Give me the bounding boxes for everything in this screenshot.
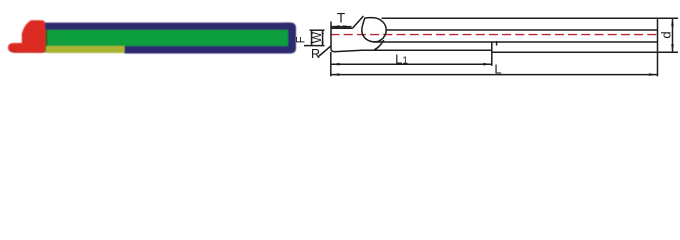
W dimension left arrow line <box>311 30 313 45</box>
svg-text:R: R <box>311 47 320 61</box>
lobe-to-neck fillet <box>374 40 384 50</box>
L1 left arrowhead <box>331 63 340 66</box>
head slant to lobe (T right extension) <box>353 16 364 28</box>
T dimension line <box>331 26 352 28</box>
W bottom extension tick <box>304 45 325 47</box>
shank bottom outline + d extension <box>492 51 678 53</box>
small tick at nominal L1 end <box>496 41 498 46</box>
d top arrowhead <box>671 18 674 27</box>
W arrows (4 small) <box>310 30 323 45</box>
label T <box>337 10 345 25</box>
tool navy bottom band (rear) <box>125 46 289 54</box>
tool shank top navy band <box>44 23 291 30</box>
dark seam between red head and green <box>45 30 48 53</box>
label F (rotated) <box>296 36 308 43</box>
tool green carbide band <box>46 30 288 46</box>
R leader line <box>319 46 332 57</box>
label L <box>494 61 501 76</box>
L1 dimension line <box>331 63 492 65</box>
head left edge with corner radius <box>331 22 335 52</box>
d bottom arrowhead <box>671 44 674 53</box>
L/L1 left extension line <box>330 52 332 76</box>
shank upper flat line <box>386 29 658 31</box>
svg-text:d: d <box>659 31 674 38</box>
d dimension line <box>672 18 674 53</box>
svg-text:W: W <box>310 31 324 43</box>
svg-text:F: F <box>296 36 308 43</box>
W dimension right arrow line <box>322 30 324 45</box>
red head lower shading <box>9 50 44 53</box>
tool yellow band (front lower) <box>46 46 125 53</box>
W top extension tick <box>310 29 325 31</box>
label L1 <box>395 51 408 66</box>
shank lower flat line <box>373 41 658 43</box>
T right arrowhead <box>343 25 352 28</box>
label R <box>311 47 320 61</box>
red cutting head <box>8 20 45 53</box>
label W (rotated) <box>310 31 324 43</box>
colored tool render (left) <box>8 20 296 53</box>
L right extension line <box>657 53 659 77</box>
step / L1 extension line <box>491 42 493 66</box>
L dimension line <box>331 74 658 76</box>
shank top outline + d extension <box>382 17 679 19</box>
L right arrowhead <box>649 73 658 76</box>
T left arrowhead <box>331 25 340 28</box>
svg-text:L: L <box>494 61 501 76</box>
centerline (red dashed) <box>331 34 661 36</box>
tool shank right end cap <box>282 23 296 54</box>
clamp lobe outline <box>362 18 386 42</box>
svg-text:T: T <box>337 10 345 25</box>
head top edge <box>331 27 353 29</box>
label d (rotated) <box>659 31 674 38</box>
L left arrowhead <box>331 73 340 76</box>
shank end face <box>657 18 659 53</box>
svg-text:L1: L1 <box>395 51 408 66</box>
L1 right arrowhead <box>483 63 492 66</box>
neck bottom line with head bottom slope <box>334 50 492 52</box>
